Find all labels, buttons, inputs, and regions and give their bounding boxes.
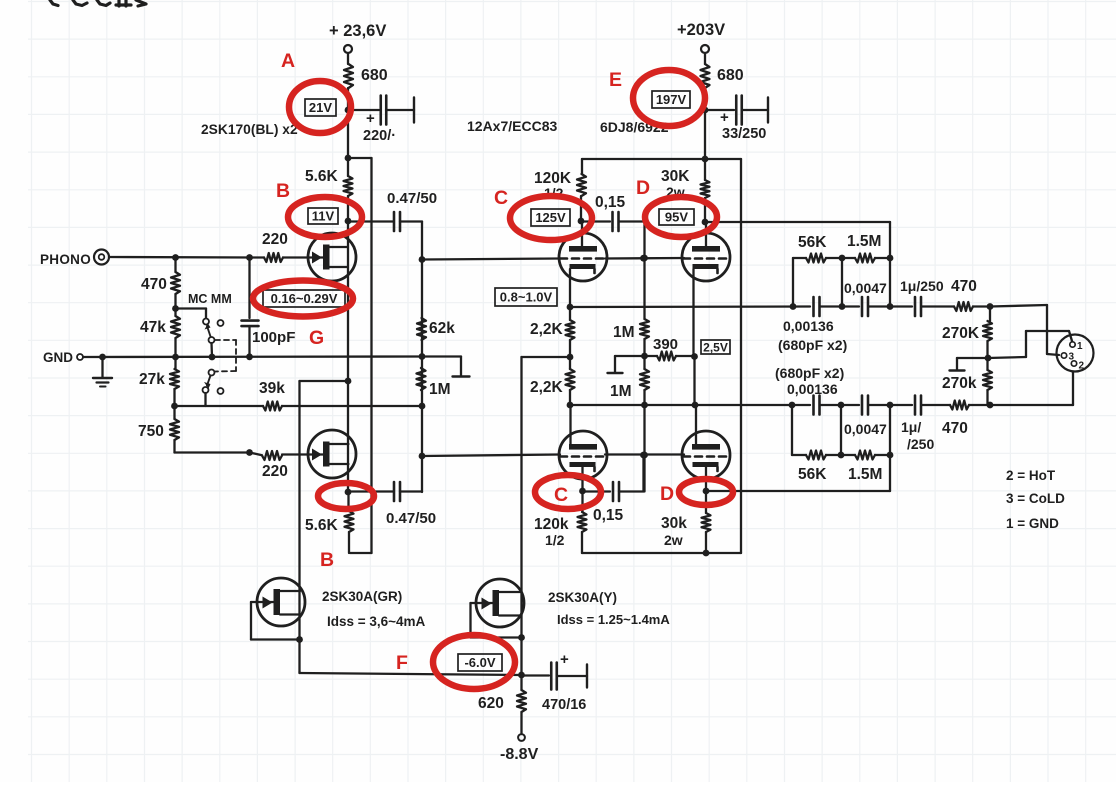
resistor 47k (input divider) <box>171 316 180 338</box>
wire capacitor 0.47/50 lower to grid feed vertical <box>400 490 422 492</box>
svg-text:E: E <box>609 69 622 91</box>
terminal +203V supply <box>701 45 709 53</box>
wire CCS vertical x=521.5 <box>520 357 522 675</box>
wire GND bus <box>83 355 422 358</box>
terminal -8.8V supply <box>518 734 525 741</box>
junction PHONO line / 470 divider <box>172 254 179 261</box>
wire bootstrap vertical x=371.5 <box>370 158 372 553</box>
switch S1a wiper arrow <box>207 326 211 337</box>
wire node C lower to capacitor 0.15 lower <box>583 490 611 492</box>
capacitor 0.47/50 lower coupling <box>393 482 396 501</box>
svg-text:2SK170(BL) x2: 2SK170(BL) x2 <box>201 122 298 137</box>
svg-text:220: 220 <box>262 463 288 480</box>
wire 1M to 390 node <box>643 339 645 369</box>
wire node D to feedback network <box>705 221 890 223</box>
wire V1a cathode to 2.2K <box>569 307 571 320</box>
wire 95V line corner down to EQ row <box>889 222 891 258</box>
resistor 270k (lower output divider) <box>983 370 992 390</box>
junction node C lower (V1b cathode) <box>579 488 586 495</box>
wire 2.2K lower to plate line <box>569 390 571 405</box>
red circle A <box>289 81 351 133</box>
wire 27k to 750 <box>173 389 175 419</box>
switch S1b wiper arrow <box>207 376 211 386</box>
wire V2a cathode lead <box>692 269 694 356</box>
junction top output node <box>987 303 994 310</box>
svg-text:+: + <box>366 110 375 127</box>
wire capacitor 0.47/50 upper to grid feed vertical <box>400 220 422 222</box>
wire EQ top row middle drop <box>841 258 843 307</box>
switch S1b MM contact <box>218 388 224 394</box>
junction PHONO line / 100pF <box>246 254 253 261</box>
svg-text:2w: 2w <box>664 532 683 548</box>
voltage box 95V (node D) <box>659 209 694 225</box>
resistor 56K (bottom EQ) <box>806 451 826 460</box>
red circle B lower <box>318 483 374 509</box>
wire node D lower to 30k <box>705 491 707 513</box>
svg-text:Idss = 1.25~1.4mA: Idss = 1.25~1.4mA <box>557 612 670 627</box>
svg-text:C: C <box>554 484 568 506</box>
wire EQ bottom row left drop <box>791 405 793 455</box>
wire EQ top row right drop <box>889 258 891 307</box>
svg-text:220/·: 220/· <box>363 128 396 144</box>
switch S1a MM contact <box>218 320 224 326</box>
pin 1 of XLR <box>1070 342 1075 347</box>
red circle G <box>253 281 353 317</box>
wire node C lower to 120k <box>581 491 583 512</box>
junction divider at 27k bottom <box>171 403 178 410</box>
resistor 2.2K (upper) <box>566 320 575 340</box>
wire bootstrap bottom hook to 5.6K lower <box>350 552 372 554</box>
capacitor 0.00136 top <box>812 297 815 316</box>
junction 1M vertical / plate line <box>641 402 648 409</box>
switch S1a pole <box>209 337 215 343</box>
wire 47k to GND line <box>174 338 176 369</box>
svg-text:A: A <box>281 50 295 72</box>
switch S1a MC contact <box>203 319 209 325</box>
wire 680 to node A down to jog <box>347 88 349 176</box>
junction GND / 100pF <box>246 353 253 360</box>
wire 470 bottom to 270k node <box>969 404 990 406</box>
svg-text:0,0047: 0,0047 <box>844 280 887 296</box>
wire node B lower to 5.6K lower <box>347 492 349 511</box>
voltage box 197V (node E) <box>652 91 690 108</box>
svg-text:0.8~1.0V: 0.8~1.0V <box>500 290 553 305</box>
red circle C <box>510 196 592 240</box>
wire node B lower to capacitor 0.47/50 lower <box>349 490 394 492</box>
connector PHONO jack <box>94 250 109 265</box>
junction EQ bottom row right <box>887 452 894 459</box>
junction V1b plate node <box>567 402 574 409</box>
resistor 620 (bias) <box>517 690 526 712</box>
wire between 2.2K resistors <box>569 340 571 369</box>
svg-text:0,00136: 0,00136 <box>783 318 834 334</box>
junction 390 / V2a cathode <box>691 353 698 360</box>
svg-text:21V: 21V <box>309 100 332 115</box>
junction lower grid line <box>640 452 647 459</box>
voltage box -6.0V (node F) <box>458 654 502 671</box>
wire capacitor 220uF to terminal bar <box>386 109 414 111</box>
resistor 5.6K (upper drain load) <box>344 176 353 196</box>
resistor 1.5M (bottom EQ) <box>855 451 875 460</box>
svg-text:0,0047: 0,0047 <box>844 421 887 437</box>
svg-text:1.5M: 1.5M <box>847 233 881 250</box>
terminal bar of capacitor 470/16 <box>586 665 588 688</box>
wire bottom signal segment 3 <box>869 404 913 406</box>
wire 30K to node D (95V) <box>704 198 706 222</box>
red circle F <box>433 635 515 689</box>
svg-text:0,15: 0,15 <box>595 194 626 211</box>
svg-text:120k: 120k <box>534 516 569 533</box>
svg-text:MC MM: MC MM <box>188 292 232 306</box>
wire divider to switch S1a <box>176 307 207 309</box>
resistor 2.2K (lower) <box>566 369 575 390</box>
wire 2.2K midpoint jog to CCS <box>522 356 571 358</box>
wire bottom signal segment 4 <box>922 404 951 406</box>
wire 220 to upper JFET gate <box>283 256 309 258</box>
svg-text:0.16~0.29V: 0.16~0.29V <box>271 291 338 306</box>
wire 5.6K lower to hook <box>348 532 350 553</box>
wire 5.6K to node B (11V) <box>347 196 349 221</box>
resistor 470 (input divider) <box>171 272 180 294</box>
svg-text:3 = CoLD: 3 = CoLD <box>1006 491 1065 506</box>
svg-text:(680pF x2): (680pF x2) <box>778 337 847 353</box>
capacitor 0.00136 bottom <box>812 396 815 415</box>
wire lower grid line between tubes <box>605 453 684 455</box>
svg-text:D: D <box>636 177 650 199</box>
junction 750 line / 39k branch <box>246 449 253 456</box>
terminal bar of capacitor 220uF <box>413 98 415 123</box>
capacitor 33/250 bypass <box>735 96 738 125</box>
svg-text:1μ/250: 1μ/250 <box>900 278 944 294</box>
svg-text:2,2K: 2,2K <box>530 379 564 396</box>
resistor 120k 1/2 (left cathode) <box>578 512 587 532</box>
resistor 5.6K (lower source load) <box>345 511 354 532</box>
junction Q4 gate tie <box>518 634 525 641</box>
wire Q3 gate-source loop <box>251 601 258 603</box>
wire 39k to grid feed vertical <box>282 405 422 407</box>
wire V1b cathode lead <box>581 466 583 491</box>
wire tall loop vertical x=741 <box>740 159 742 553</box>
junction bottom signal / EQ right <box>887 402 894 409</box>
svg-text:270K: 270K <box>942 325 980 342</box>
wire PHONO input line <box>109 256 264 259</box>
terminal +23.6V supply <box>344 45 352 53</box>
svg-text:Idss = 3,6~4mA: Idss = 3,6~4mA <box>327 614 426 629</box>
wire node E to capacitor 33/250 <box>705 109 734 111</box>
capacitor 470/16 bypass <box>550 663 553 690</box>
wire bottom rail y=553 <box>582 552 741 554</box>
wire EQ bottom right drop to D line <box>889 405 891 491</box>
svg-text:47k: 47k <box>140 319 166 336</box>
capacitor 0.47/50 upper coupling <box>393 212 396 231</box>
svg-text:2,2K: 2,2K <box>530 321 564 338</box>
wire top loop to 120K <box>581 159 583 174</box>
voltage box 21V (node A) <box>305 99 336 116</box>
svg-text:GND: GND <box>43 350 73 365</box>
resistor 750 (input divider) <box>170 419 179 440</box>
junction bottom output node <box>987 402 994 409</box>
transistor Q2 2SK170 lower <box>308 430 356 478</box>
junction EQ top row right <box>887 255 894 262</box>
svg-text:220: 220 <box>262 231 288 248</box>
svg-text:30k: 30k <box>661 515 687 532</box>
svg-text:680: 680 <box>717 67 744 84</box>
svg-text:1M: 1M <box>613 324 635 341</box>
wire node B to capacitor 0.47/50 upper <box>348 220 393 222</box>
junction bottom signal / EQ middle <box>838 402 845 409</box>
junction node A (21V) <box>345 107 352 114</box>
resistor 1M (lower bias) <box>640 369 649 390</box>
wire jog JFET midpoint to CCS <box>300 380 349 382</box>
wire 270k to bottom output node <box>986 390 988 405</box>
wire jog at y=158 to bootstrap vertical <box>348 157 372 159</box>
svg-text:470: 470 <box>942 420 968 437</box>
wire 620 to -8.8V terminal <box>520 712 522 734</box>
junction at jog y=158 <box>345 155 352 162</box>
wire top signal line from V1a cathode <box>570 305 810 308</box>
svg-text:C: C <box>494 187 508 209</box>
tube V1b 12AX7 lower <box>559 431 607 479</box>
wire 750 bottom corner <box>173 440 175 453</box>
wire Q4 gate-source loop <box>471 602 477 604</box>
junction V1a cathode node <box>567 304 574 311</box>
svg-text:1μ/: 1μ/ <box>901 419 921 435</box>
wire upper grid line <box>422 259 560 260</box>
wire 1M lower to grid line lower <box>643 390 645 492</box>
resistor 1M (upper bias) <box>640 319 649 339</box>
svg-text:+: + <box>560 651 569 668</box>
switch S1b MC contact <box>203 387 209 393</box>
capacitor 0.0047 top <box>861 297 864 316</box>
wire top output node to 270K <box>989 307 991 322</box>
resistor 680 (right supply dropper) <box>701 64 710 88</box>
junction GND / divider <box>172 354 179 361</box>
svg-text:2SK30A(GR): 2SK30A(GR) <box>322 589 402 604</box>
ground tick at 390 node <box>615 355 645 357</box>
junction grid line lower / 1M vertical <box>641 452 648 459</box>
svg-text:G: G <box>309 327 324 349</box>
svg-text:12Ax7/ECC83: 12Ax7/ECC83 <box>467 118 557 134</box>
wire 390 node to resistor 390 <box>645 355 658 357</box>
resistor 270K (upper output divider) <box>983 321 992 341</box>
wire V1b plate lead <box>569 405 571 446</box>
wire grid feed vertical x=422 <box>421 222 423 493</box>
wire V1a cathode lead <box>569 269 571 307</box>
svg-text:2 = HoT: 2 = HoT <box>1006 468 1056 483</box>
svg-text:0,15: 0,15 <box>593 507 624 524</box>
capacitor 100pF input <box>242 319 259 322</box>
svg-text:2SK30A(Y): 2SK30A(Y) <box>548 590 617 605</box>
svg-text:390: 390 <box>653 336 678 353</box>
wire plate line y=405 to output network <box>570 404 792 406</box>
svg-text:PHONO: PHONO <box>40 252 91 267</box>
wire V2b cathode lead <box>705 466 707 491</box>
pin 2 of XLR <box>1071 361 1076 366</box>
red circle D lower <box>679 479 733 505</box>
wire mid node to XLR pin1 <box>988 357 1026 358</box>
junction node F <box>518 672 525 679</box>
resistor 120K 1/2 (left plate load) <box>577 174 586 196</box>
wire upper grid line between tubes <box>605 257 684 260</box>
capacitor 0.15 lower coupling <box>612 482 615 501</box>
wire EQ bottom row middle drop <box>840 405 842 455</box>
resistor 390 (cathode bias) <box>657 352 676 361</box>
svg-text:1/2: 1/2 <box>545 532 565 548</box>
junction node B (11V) <box>345 218 352 225</box>
wire switch S1b contact to bias line <box>204 393 206 406</box>
svg-text:680: 680 <box>361 67 388 84</box>
red circle C lower <box>535 475 601 509</box>
junction node E (197V) <box>702 107 709 114</box>
svg-text:56K: 56K <box>798 466 827 483</box>
resistor 30k 2w (right cathode) <box>702 513 711 532</box>
svg-text:+ 23,6V: + 23,6V <box>329 22 386 40</box>
resistor 220 (lower gate stopper) <box>262 451 282 460</box>
svg-text:+: + <box>720 109 729 126</box>
junction grid line upper / 1M vertical <box>641 255 648 262</box>
connector XLR output <box>1057 335 1094 372</box>
wire bias line y=406 <box>175 405 264 407</box>
svg-text:F: F <box>396 652 408 674</box>
wire top loop y=159 <box>582 158 741 160</box>
capacitor 1u/250 top <box>914 297 917 316</box>
resistor 27k (input divider) <box>170 369 179 389</box>
wire EQ top row leads <box>793 257 806 259</box>
svg-text:0.47/50: 0.47/50 <box>386 510 436 527</box>
ground tick at output mid node <box>957 357 988 359</box>
junction JFET midpoint to CCS branch <box>345 378 352 385</box>
wire top signal segment 4 <box>922 305 955 307</box>
capacitor 0.15 upper coupling <box>611 212 614 231</box>
wire node F to capacitor 470/16 <box>522 674 550 676</box>
svg-text:5.6K: 5.6K <box>305 168 339 185</box>
red circle B <box>288 197 362 237</box>
resistor 220 (upper gate stopper) <box>264 253 283 262</box>
svg-text:470: 470 <box>951 278 977 295</box>
tube V1a 12AX7 upper <box>559 233 607 281</box>
svg-text:125V: 125V <box>535 210 566 225</box>
junction grid feed / bias line <box>419 403 426 410</box>
wire 470 top to 270K node <box>973 305 990 307</box>
junction upper grid line <box>640 255 647 262</box>
svg-text:95V: 95V <box>665 210 688 225</box>
wire supply to R 680 <box>347 53 349 64</box>
junction node E / top loop <box>702 156 709 163</box>
wire node C to tube V1 plate <box>581 221 583 246</box>
wire capacitor 0.15 lower to grid junction <box>619 490 644 492</box>
resistor 680 (left supply dropper) <box>344 64 353 88</box>
resistor 30K 2w (right plate load) <box>701 180 710 198</box>
capacitor 0.0047 bottom <box>861 396 864 415</box>
svg-text:750: 750 <box>138 423 164 440</box>
svg-text:/250: /250 <box>907 436 934 452</box>
svg-text:3: 3 <box>1069 352 1075 363</box>
junction 2.2K midpoint <box>567 354 574 361</box>
wire 1M bias vertical upper <box>643 222 645 320</box>
wire 390 to V2 cathode vertical <box>676 355 694 357</box>
transistor Q1 2SK170 upper <box>308 233 356 281</box>
wire node C to capacitor 0.15 upper <box>581 220 610 222</box>
transistor Q4 2SK30A(Y) current source <box>476 579 524 627</box>
wire lower grid line <box>422 455 560 457</box>
wire top signal segment 2 <box>820 305 859 307</box>
red circle D <box>645 197 717 237</box>
wire top signal segment 3 <box>869 305 913 307</box>
svg-text:11V: 11V <box>312 209 335 224</box>
ground tick at 62k node <box>460 357 462 377</box>
svg-text:-6.0V: -6.0V <box>464 655 495 670</box>
svg-text:1: 1 <box>1077 341 1083 352</box>
svg-text:1M: 1M <box>610 383 632 400</box>
junction GND / ground symbol <box>99 354 106 361</box>
resistor 1.5M (top EQ) <box>855 254 875 263</box>
svg-text:(680pF x2): (680pF x2) <box>775 365 844 381</box>
wire D line y=491 <box>706 490 890 492</box>
wire node D to tube V2 plate <box>705 222 707 246</box>
junction node D lower (V2b cathode) <box>703 488 710 495</box>
svg-text:0.47/50: 0.47/50 <box>387 190 437 207</box>
svg-text:100pF: 100pF <box>252 329 295 346</box>
junction node C (125V) <box>578 218 585 225</box>
capacitor 1u/250 bottom <box>914 396 917 415</box>
wire top output to XLR pin3 <box>990 305 1047 307</box>
resistor 1M (grid bias left) <box>417 368 426 390</box>
svg-text:B: B <box>276 180 290 202</box>
junction GND / 62k-1M node <box>419 353 426 360</box>
resistor 62k (grid bias) <box>417 318 426 340</box>
junction top signal / EQ left <box>790 303 797 310</box>
terminal bar of capacitor 33/250 <box>767 98 769 123</box>
junction bottom rail / 30k <box>703 550 710 557</box>
junction top signal / EQ right <box>887 303 894 310</box>
svg-text:62k: 62k <box>429 320 455 337</box>
wire PHONO line to 100pF <box>248 258 250 319</box>
svg-text:5.6K: 5.6K <box>305 517 339 534</box>
junction output mid node (gnd ref) <box>985 355 992 362</box>
wire 100pF to GND <box>248 326 250 357</box>
svg-text:470: 470 <box>141 276 167 293</box>
wire V2b plate lead <box>695 405 697 446</box>
wire 30k to bottom rail <box>705 532 707 553</box>
wire bottom output to XLR pin2 <box>990 404 1073 406</box>
resistor 56K (top EQ) <box>806 254 826 263</box>
junction node D (95V) <box>702 219 709 226</box>
svg-text:2: 2 <box>1079 361 1085 372</box>
wire capacitor 33/250 to terminal bar <box>742 109 768 111</box>
svg-text:56K: 56K <box>798 234 827 251</box>
junction grid feed / lower grid line <box>419 453 426 460</box>
svg-text:27k: 27k <box>139 371 165 388</box>
page title text (clipped at top) <box>50 0 58 6</box>
wire 270K to mid node <box>986 341 988 370</box>
wire CCS drain vertical x=299.5 <box>298 381 300 672</box>
wire capacitor 0.15 upper to 1M vertical <box>619 220 645 222</box>
svg-text:1 = GND: 1 = GND <box>1006 516 1059 531</box>
wire capacitor 470/16 to terminal bar <box>557 675 587 677</box>
voltage box 0.8~1.0V <box>495 288 557 306</box>
terminal GND <box>77 354 83 360</box>
wire node F to R 620 <box>520 675 522 690</box>
junction grid feed / upper grid line <box>419 256 426 263</box>
resistor 470 (bottom output) <box>950 401 969 410</box>
wire 120K to node C (125V) <box>580 196 582 221</box>
ground symbol (input) <box>101 357 103 377</box>
svg-text:+203V: +203V <box>677 21 725 39</box>
pin 3 of XLR <box>1061 353 1066 358</box>
svg-text:197V: 197V <box>656 92 687 107</box>
resistor 470 (top output) <box>954 302 973 311</box>
svg-text:-8.8V: -8.8V <box>500 746 539 763</box>
